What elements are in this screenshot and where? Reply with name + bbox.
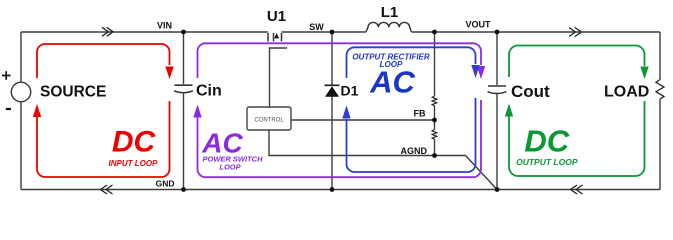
voltage source minus label	[6, 108, 11, 110]
feedback resistor lower	[432, 130, 437, 140]
transistor U1 arrow	[274, 33, 279, 38]
wire: right rail	[659, 32, 661, 190]
junction dot FB	[432, 118, 437, 123]
svg-text:L1: L1	[381, 4, 399, 21]
current chevron top-right	[569, 28, 581, 37]
red loop arrow up (left side)	[33, 104, 41, 117]
diode D1 triangle	[325, 86, 339, 97]
red loop arrow down (right side)	[165, 67, 173, 80]
wire: bottom rail	[21, 189, 660, 191]
purple loop arrow up (left side)	[193, 105, 201, 118]
capacitor Cin branch wire lower	[183, 93, 185, 190]
junction dot bottom below D1	[330, 187, 335, 192]
svg-text:FB: FB	[414, 109, 426, 119]
svg-text:AC: AC	[369, 65, 415, 100]
junction dot divider top	[432, 30, 437, 35]
svg-text:VOUT: VOUT	[465, 20, 491, 30]
svg-text:OUTPUT LOOP: OUTPUT LOOP	[516, 157, 578, 167]
purple power switch loop outline	[198, 43, 482, 177]
current chevron bottom-right	[571, 185, 583, 194]
wire: control block to FB node	[291, 119, 435, 121]
feedback divider wire	[434, 32, 436, 156]
svg-text:D1: D1	[341, 83, 359, 99]
blue loop arrow down (right side)	[471, 65, 479, 78]
feedback resistor upper	[432, 96, 437, 106]
voltage source plus label	[2, 71, 11, 80]
svg-text:Cin: Cin	[196, 83, 222, 100]
svg-text:LOOP: LOOP	[219, 163, 241, 172]
resistor load	[656, 80, 664, 100]
red DC input loop outline	[37, 44, 170, 177]
svg-text:SW: SW	[309, 22, 324, 32]
capacitor Cout branch wire lower	[496, 93, 498, 189]
green loop arrow down (right side)	[640, 67, 648, 80]
blue loop arrow up (left side)	[342, 106, 350, 119]
wire: top rail U1-to-SW and SW-to-L1 segment	[282, 31, 367, 33]
svg-text:DC: DC	[112, 126, 157, 159]
svg-text:CONTROL: CONTROL	[254, 118, 284, 124]
capacitor Cin plates	[175, 84, 193, 86]
capacitor Cout branch wire upper	[496, 32, 498, 85]
capacitor Cout plates	[488, 85, 506, 87]
control block U1	[247, 107, 291, 130]
wire: top rail VIN segment	[21, 31, 268, 33]
junction dot bottom below Cin	[181, 187, 186, 192]
green DC output loop outline	[509, 46, 645, 177]
wire: top rail L1-to-right-edge segment	[412, 31, 661, 33]
svg-text:LOAD: LOAD	[604, 84, 649, 101]
current chevron top-left	[102, 27, 113, 36]
inductor L1 coil	[366, 22, 412, 32]
transistor U1 switch: bars	[268, 33, 282, 42]
green loop arrow up (left side)	[505, 104, 513, 117]
svg-text:DC: DC	[524, 124, 569, 159]
wire: SW node down through D1 to bottom rail	[331, 32, 333, 190]
svg-text:AGND: AGND	[401, 146, 428, 156]
current chevron bottom-left	[101, 185, 113, 194]
diode D1 cathode bar	[325, 84, 340, 86]
voltage source V1 circle	[11, 82, 30, 101]
svg-text:U1: U1	[267, 8, 286, 25]
junction dot VIN	[181, 30, 186, 35]
svg-text:INPUT LOOP: INPUT LOOP	[109, 159, 159, 168]
junction dot AGND	[432, 153, 437, 158]
junction dot VOUT	[495, 30, 500, 35]
svg-text:Cout: Cout	[511, 82, 550, 101]
svg-text:SOURCE: SOURCE	[40, 84, 106, 101]
capacitor Cin branch wire upper	[183, 32, 185, 84]
wire: left rail	[20, 32, 22, 190]
purple loop arrow down (right side)	[477, 66, 485, 79]
junction dot SW	[330, 30, 335, 35]
wire: U1 gate bar and drop to control	[270, 48, 288, 107]
blue output rectifier loop outline	[347, 47, 476, 172]
svg-text:VIN: VIN	[157, 21, 172, 31]
wire: control block bottom to AGND rail with diagonal to ground	[269, 130, 497, 190]
junction dot bottom below Cout	[495, 187, 500, 192]
svg-text:GND: GND	[156, 179, 175, 189]
